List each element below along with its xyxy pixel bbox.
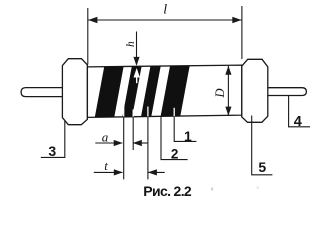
svg-text:1: 1 <box>184 128 192 144</box>
dimension h: vertical line with down arrowhead <box>136 32 138 65</box>
dimension t: right line and arrowhead <box>148 171 165 173</box>
callout 5: leader line <box>252 116 273 175</box>
resistor body <box>87 65 241 117</box>
svg-text:h: h <box>125 41 137 47</box>
svg-text:t: t <box>104 158 108 173</box>
extension line E3 (white through band 3, black below) <box>147 107 149 117</box>
marking band 3 <box>141 66 161 117</box>
svg-text:l: l <box>163 3 167 18</box>
svg-text:2: 2 <box>171 147 179 162</box>
marking band 1 (wide) <box>95 67 124 118</box>
lead wire right (terminal 4 side) <box>266 88 306 96</box>
dimension D: line with outward arrowheads <box>227 66 229 115</box>
dimension t: left line and arrowhead <box>94 171 123 173</box>
dimension l: line <box>88 19 242 21</box>
extension line E1 (white through band 2, black below body) <box>123 104 125 117</box>
callout 2: leader line <box>161 116 188 159</box>
callout 1: leader line <box>174 117 196 142</box>
svg-text:5: 5 <box>258 159 266 175</box>
faint scan smudge left <box>211 188 213 191</box>
dimension a: left line and arrowhead <box>95 142 122 144</box>
marking band 4 (wide) <box>161 66 190 117</box>
faint scan smudge right <box>257 187 259 189</box>
end cap right <box>242 59 268 122</box>
callout 3: leader line <box>41 121 65 157</box>
callout 4: leader line <box>289 96 310 127</box>
svg-text:Рис. 2.2: Рис. 2.2 <box>143 183 192 199</box>
dimension l: right arrowhead <box>232 17 241 23</box>
dimension l: right extension line <box>241 6 243 59</box>
svg-text:D: D <box>213 88 227 98</box>
end cap left <box>62 59 87 125</box>
dimension l: left extension line <box>87 8 89 65</box>
marking band 2 <box>122 66 141 117</box>
dimension l: left arrowhead <box>88 17 97 23</box>
lead wire left (terminal 3 side) <box>21 88 66 97</box>
dimension a: right line and arrowhead <box>133 142 147 144</box>
svg-text:3: 3 <box>48 143 56 159</box>
extension line E2 (white through band 2 edge, black below) <box>132 110 134 117</box>
callout 1: white leader through band 4 <box>173 108 175 116</box>
svg-text:a: a <box>102 130 109 145</box>
dimension h: white up arrow inside band 2 <box>134 68 140 78</box>
svg-text:4: 4 <box>294 114 302 130</box>
